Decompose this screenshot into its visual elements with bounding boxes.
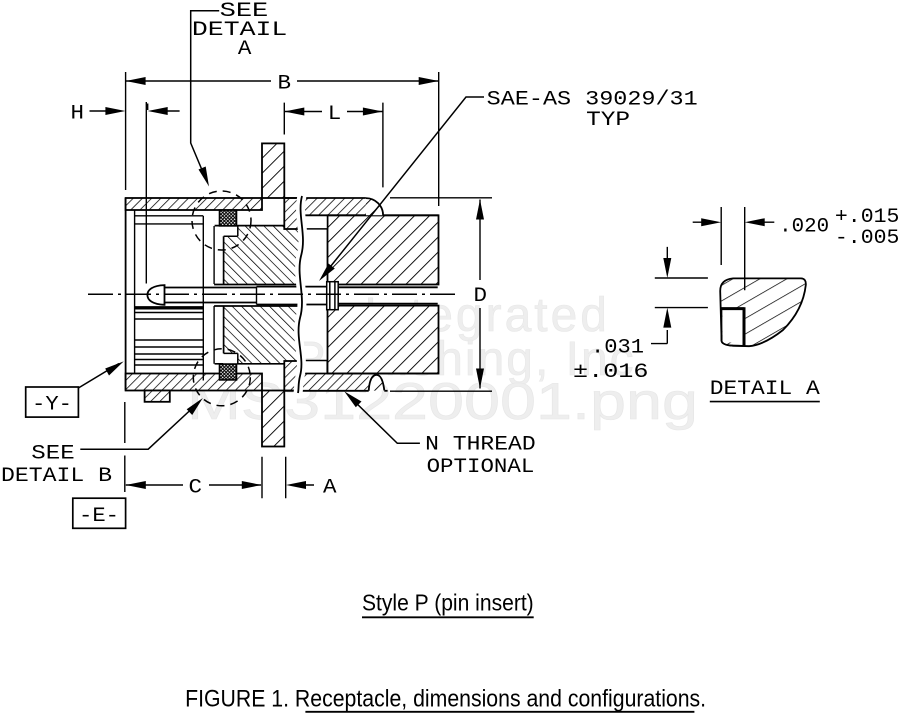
gasket bottom crosshatched	[220, 364, 237, 380]
DETAIL A notch thick edges	[721, 307, 744, 347]
dimension L line	[284, 111, 383, 113]
DETAIL A view: blob hatched	[720, 278, 806, 346]
caption figure underline	[305, 711, 694, 713]
dimension C line	[126, 484, 261, 486]
svg-text:DETAIL A: DETAIL A	[710, 378, 821, 401]
rear shell thin band top to dome	[300, 198, 366, 215]
contact pin rod middle	[257, 287, 327, 305]
box -Y-	[26, 387, 79, 417]
cavity inner face line (H datum)	[145, 102, 147, 284]
contact pin cap	[147, 285, 164, 305]
dimension H arrows	[90, 110, 180, 112]
svg-text:A: A	[323, 477, 337, 500]
insulator gasket groove notch top	[223, 227, 238, 237]
svg-text:-.005: -.005	[835, 227, 900, 250]
leader SAE-AS	[323, 97, 485, 277]
DETAIL A .020 arrows	[693, 221, 775, 223]
text labels (drawing font)	[1, 0, 899, 528]
svg-text:.020: .020	[779, 216, 829, 239]
centerline over pin	[88, 293, 460, 295]
svg-text:±.016: ±.016	[573, 361, 649, 384]
rear shell thick band top left of break	[284, 198, 303, 229]
svg-text:TYP: TYP	[586, 109, 630, 132]
svg-text:N THREAD: N THREAD	[425, 434, 536, 457]
rear shell thin band bottom to dome	[300, 374, 369, 391]
dimension D extension lines	[390, 198, 492, 391]
shell outer bottom edge	[284, 390, 368, 392]
svg-text:-Y-: -Y-	[32, 394, 72, 417]
shell outer top edge	[284, 197, 366, 199]
dome blend bottom (N thread runout) hatched	[369, 375, 385, 391]
svg-text:D: D	[474, 285, 488, 308]
front shell top band hatched	[126, 198, 262, 210]
svg-text:L: L	[328, 103, 342, 126]
svg-text:H: H	[71, 103, 85, 126]
caption style underline	[362, 616, 534, 618]
cavity bottom dark line	[135, 306, 204, 309]
DETAIL A .031 lines	[655, 278, 708, 308]
svg-text:Style P (pin insert): Style P (pin insert)	[362, 590, 534, 616]
DETAIL A .020 extension lines	[721, 207, 745, 290]
leader SEE DETAIL B	[80, 403, 198, 450]
contact pin step tick	[256, 287, 258, 305]
rear shell thick band bottom left of break	[284, 361, 303, 391]
dimension D line	[479, 200, 481, 389]
wavy break line	[298, 196, 303, 393]
dimension B extension lines	[126, 72, 439, 206]
dimension A arrow	[291, 484, 314, 486]
svg-text:SEE: SEE	[31, 443, 74, 466]
block top edge line	[302, 214, 439, 216]
DETAIL A .031 arrows	[651, 247, 667, 344]
front face outer line	[125, 198, 127, 391]
dome blend top hatched	[366, 198, 383, 215]
svg-text:.031: .031	[591, 337, 644, 360]
contact pin rear rod	[338, 287, 438, 303]
flange top leg hatched	[262, 143, 284, 198]
front shell bottom band hatched	[126, 374, 262, 391]
svg-text:OPTIONAL: OPTIONAL	[427, 456, 535, 479]
DETAIL A notch white	[723, 310, 744, 343]
svg-text:C: C	[189, 477, 203, 500]
svg-text:B: B	[278, 73, 292, 96]
leader N THREAD	[349, 396, 420, 444]
thread lines	[135, 340, 204, 365]
contact pin rod front	[165, 288, 257, 303]
leader SEE DETAIL A	[191, 11, 220, 180]
contact pin collar	[327, 282, 339, 310]
box -E-	[73, 498, 126, 528]
front shell bottom step notch	[145, 391, 170, 402]
centerline	[88, 293, 460, 295]
svg-text:A: A	[238, 38, 252, 61]
rear block upper hatched	[328, 215, 439, 284]
dimension C extension lines	[125, 402, 286, 498]
svg-text:+.015: +.015	[835, 206, 900, 229]
DETAIL A bottom left outline restored	[722, 335, 743, 346]
block bottom edge line	[302, 373, 439, 375]
detail circle bottom dashed	[193, 349, 250, 406]
undercut groove white top	[300, 216, 328, 229]
svg-text:DETAIL B: DETAIL B	[1, 465, 112, 488]
gasket top crosshatched	[220, 210, 237, 226]
insulator block hatched	[224, 226, 299, 285]
flange bottom leg hatched	[262, 391, 284, 447]
undercut groove white bottom	[300, 361, 327, 374]
rear block lower hatched	[328, 306, 439, 374]
svg-text:-E-: -E-	[79, 505, 119, 528]
dimension B line	[126, 80, 439, 82]
dimension L extension lines	[284, 103, 383, 188]
leader -Y-	[78, 364, 119, 389]
front face inner line	[134, 210, 136, 374]
cavity bottom lines	[135, 313, 204, 320]
svg-text:FIGURE 1. Receptacle, dimensi: FIGURE 1. Receptacle, dimensions and con…	[185, 686, 706, 713]
contact support strip lines	[203, 216, 214, 381]
cavity top groove lines	[135, 216, 204, 224]
DETAIL A title underline	[710, 401, 820, 403]
insulator gasket groove notch bottom	[223, 354, 238, 364]
detail circle top dashed	[192, 191, 251, 250]
